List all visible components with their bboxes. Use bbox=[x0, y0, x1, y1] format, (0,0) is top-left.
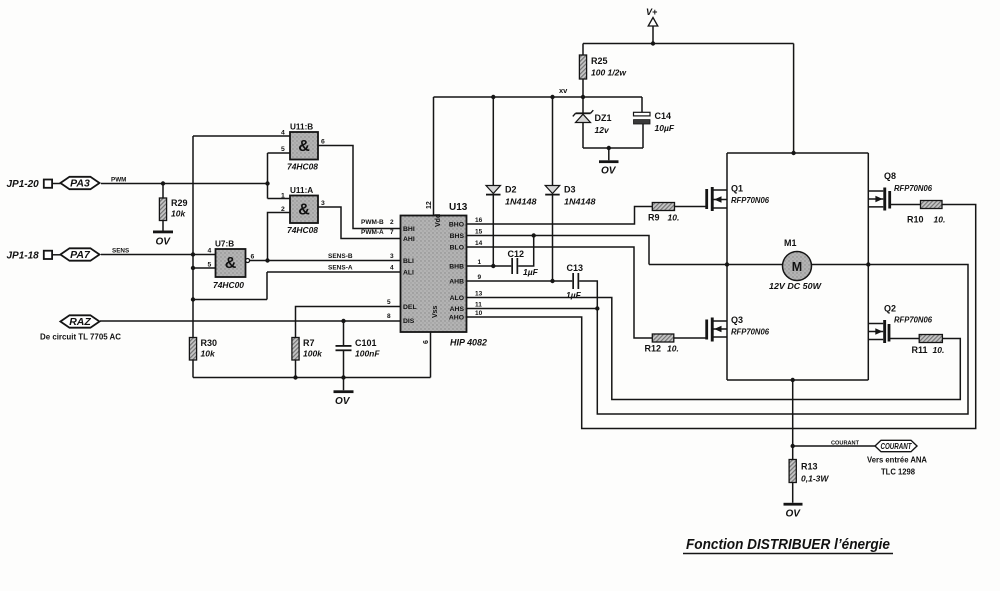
svg-text:DIS: DIS bbox=[403, 318, 415, 325]
svg-text:BHB: BHB bbox=[449, 264, 464, 271]
svg-text:Q3: Q3 bbox=[731, 315, 743, 325]
svg-text:De circuit TL 7705 AC: De circuit TL 7705 AC bbox=[40, 333, 121, 342]
svg-text:4: 4 bbox=[281, 130, 285, 137]
svg-text:DZ1: DZ1 bbox=[595, 113, 612, 123]
svg-text:Q1: Q1 bbox=[731, 184, 743, 194]
svg-text:10.: 10. bbox=[667, 344, 679, 354]
svg-text:COURANT: COURANT bbox=[881, 442, 913, 451]
svg-text:5: 5 bbox=[387, 299, 391, 306]
svg-text:U7:B: U7:B bbox=[215, 240, 234, 249]
svg-text:15: 15 bbox=[475, 229, 483, 236]
svg-text:100k: 100k bbox=[303, 349, 323, 359]
svg-text:74HC08: 74HC08 bbox=[287, 163, 318, 172]
svg-text:13: 13 bbox=[475, 291, 483, 298]
svg-text:RFP70N06: RFP70N06 bbox=[894, 184, 933, 193]
svg-text:Vss: Vss bbox=[432, 305, 439, 318]
svg-text:&: & bbox=[225, 255, 237, 272]
svg-text:RFP70N06: RFP70N06 bbox=[731, 196, 770, 205]
svg-text:2: 2 bbox=[281, 206, 285, 213]
svg-text:74HC08: 74HC08 bbox=[287, 226, 318, 235]
svg-text:Vdd: Vdd bbox=[435, 214, 442, 227]
svg-text:1: 1 bbox=[478, 259, 482, 266]
svg-text:&: & bbox=[298, 138, 310, 155]
svg-text:5: 5 bbox=[281, 146, 285, 153]
svg-text:11: 11 bbox=[475, 302, 482, 309]
svg-text:6: 6 bbox=[251, 254, 255, 261]
svg-text:1µF: 1µF bbox=[523, 267, 539, 277]
svg-text:R9: R9 bbox=[648, 213, 660, 223]
svg-text:5: 5 bbox=[208, 262, 212, 269]
svg-text:R7: R7 bbox=[303, 338, 315, 348]
svg-text:COURANT: COURANT bbox=[831, 441, 859, 447]
svg-text:ALO: ALO bbox=[450, 295, 464, 302]
svg-text:AHI: AHI bbox=[403, 236, 415, 243]
svg-text:R12: R12 bbox=[645, 344, 662, 354]
svg-text:10.: 10. bbox=[933, 345, 945, 355]
svg-text:OV: OV bbox=[601, 166, 617, 177]
svg-text:PWM: PWM bbox=[111, 177, 126, 184]
svg-text:HIP 4082: HIP 4082 bbox=[450, 338, 488, 349]
svg-text:16: 16 bbox=[475, 217, 483, 224]
svg-text:6: 6 bbox=[423, 340, 430, 344]
svg-text:9: 9 bbox=[478, 274, 482, 281]
svg-text:JP1-18: JP1-18 bbox=[7, 251, 40, 262]
svg-text:14: 14 bbox=[475, 240, 483, 247]
svg-text:R10: R10 bbox=[907, 215, 924, 225]
svg-text:0,1-3W: 0,1-3W bbox=[801, 474, 829, 484]
svg-text:DEL: DEL bbox=[403, 304, 417, 311]
svg-text:12V DC 50W: 12V DC 50W bbox=[769, 281, 822, 291]
svg-text:PWM-B: PWM-B bbox=[361, 219, 384, 226]
svg-text:7: 7 bbox=[390, 229, 394, 236]
svg-text:100 1/2w: 100 1/2w bbox=[591, 68, 627, 78]
svg-text:ALI: ALI bbox=[403, 270, 414, 277]
svg-text:TLC 1298: TLC 1298 bbox=[881, 468, 915, 477]
svg-text:M1: M1 bbox=[784, 238, 797, 248]
svg-text:OV: OV bbox=[335, 396, 351, 407]
svg-text:OV: OV bbox=[786, 509, 802, 520]
svg-text:JP1-20: JP1-20 bbox=[7, 179, 40, 190]
svg-text:R11: R11 bbox=[912, 345, 928, 355]
svg-text:SENS-A: SENS-A bbox=[328, 265, 353, 272]
svg-text:RFP70N06: RFP70N06 bbox=[731, 328, 770, 337]
svg-text:R30: R30 bbox=[201, 338, 218, 348]
svg-text:PA3: PA3 bbox=[70, 178, 90, 190]
svg-text:1N4148: 1N4148 bbox=[505, 198, 537, 207]
svg-text:V+: V+ bbox=[646, 7, 658, 17]
svg-text:R29: R29 bbox=[171, 198, 188, 208]
svg-text:R25: R25 bbox=[591, 56, 608, 66]
svg-text:100nF: 100nF bbox=[355, 349, 380, 359]
svg-text:8: 8 bbox=[387, 313, 391, 320]
svg-text:12: 12 bbox=[426, 201, 433, 209]
svg-text:U11:A: U11:A bbox=[290, 186, 313, 195]
svg-text:10.: 10. bbox=[934, 215, 946, 225]
svg-text:BHI: BHI bbox=[403, 226, 415, 233]
svg-text:PA7: PA7 bbox=[70, 249, 91, 261]
svg-text:RFP70N06: RFP70N06 bbox=[894, 316, 933, 325]
svg-text:12v: 12v bbox=[595, 125, 610, 135]
svg-text:3: 3 bbox=[390, 253, 394, 260]
svg-text:Vers entrée ANA: Vers entrée ANA bbox=[867, 456, 927, 465]
svg-text:10k: 10k bbox=[171, 209, 186, 219]
svg-text:BHS: BHS bbox=[450, 233, 465, 240]
svg-text:C13: C13 bbox=[567, 263, 584, 273]
svg-text:1N4148: 1N4148 bbox=[564, 198, 596, 207]
svg-text:xv: xv bbox=[559, 86, 568, 95]
svg-text:6: 6 bbox=[321, 139, 325, 146]
svg-text:SENS-B: SENS-B bbox=[328, 253, 353, 260]
svg-text:2: 2 bbox=[390, 219, 394, 226]
svg-text:BLI: BLI bbox=[403, 258, 414, 265]
svg-text:4: 4 bbox=[390, 265, 394, 272]
svg-text:AHS: AHS bbox=[450, 306, 465, 313]
svg-text:RAZ: RAZ bbox=[69, 316, 91, 328]
svg-text:OV: OV bbox=[156, 237, 172, 248]
svg-text:C101: C101 bbox=[355, 338, 377, 348]
svg-text:Q8: Q8 bbox=[884, 171, 896, 181]
svg-text:10: 10 bbox=[475, 310, 483, 317]
svg-text:10k: 10k bbox=[201, 349, 216, 359]
svg-text:&: & bbox=[298, 202, 310, 219]
svg-text:1: 1 bbox=[281, 193, 285, 200]
svg-text:PWM-A: PWM-A bbox=[361, 229, 384, 236]
svg-text:D3: D3 bbox=[564, 185, 576, 195]
svg-text:Fonction DISTRIBUER l’énergie: Fonction DISTRIBUER l’énergie bbox=[686, 536, 890, 553]
svg-text:10.: 10. bbox=[668, 213, 680, 223]
svg-text:AHO: AHO bbox=[449, 315, 464, 322]
svg-text:3: 3 bbox=[321, 200, 325, 207]
svg-text:SENS: SENS bbox=[112, 248, 129, 255]
svg-text:C12: C12 bbox=[508, 249, 525, 259]
svg-text:R13: R13 bbox=[801, 462, 818, 472]
svg-text:AHB: AHB bbox=[449, 279, 464, 286]
svg-text:BHO: BHO bbox=[449, 222, 464, 229]
svg-text:10µF: 10µF bbox=[655, 123, 675, 133]
svg-text:1µF: 1µF bbox=[566, 290, 582, 300]
svg-text:4: 4 bbox=[208, 248, 212, 255]
svg-text:U13: U13 bbox=[449, 202, 468, 213]
svg-text:BLO: BLO bbox=[450, 245, 464, 252]
svg-text:Q2: Q2 bbox=[884, 304, 896, 314]
svg-text:C14: C14 bbox=[655, 111, 672, 121]
svg-text:74HC00: 74HC00 bbox=[213, 281, 244, 290]
svg-text:M: M bbox=[792, 260, 802, 274]
svg-text:U11:B: U11:B bbox=[290, 123, 313, 132]
svg-text:D2: D2 bbox=[505, 185, 517, 195]
